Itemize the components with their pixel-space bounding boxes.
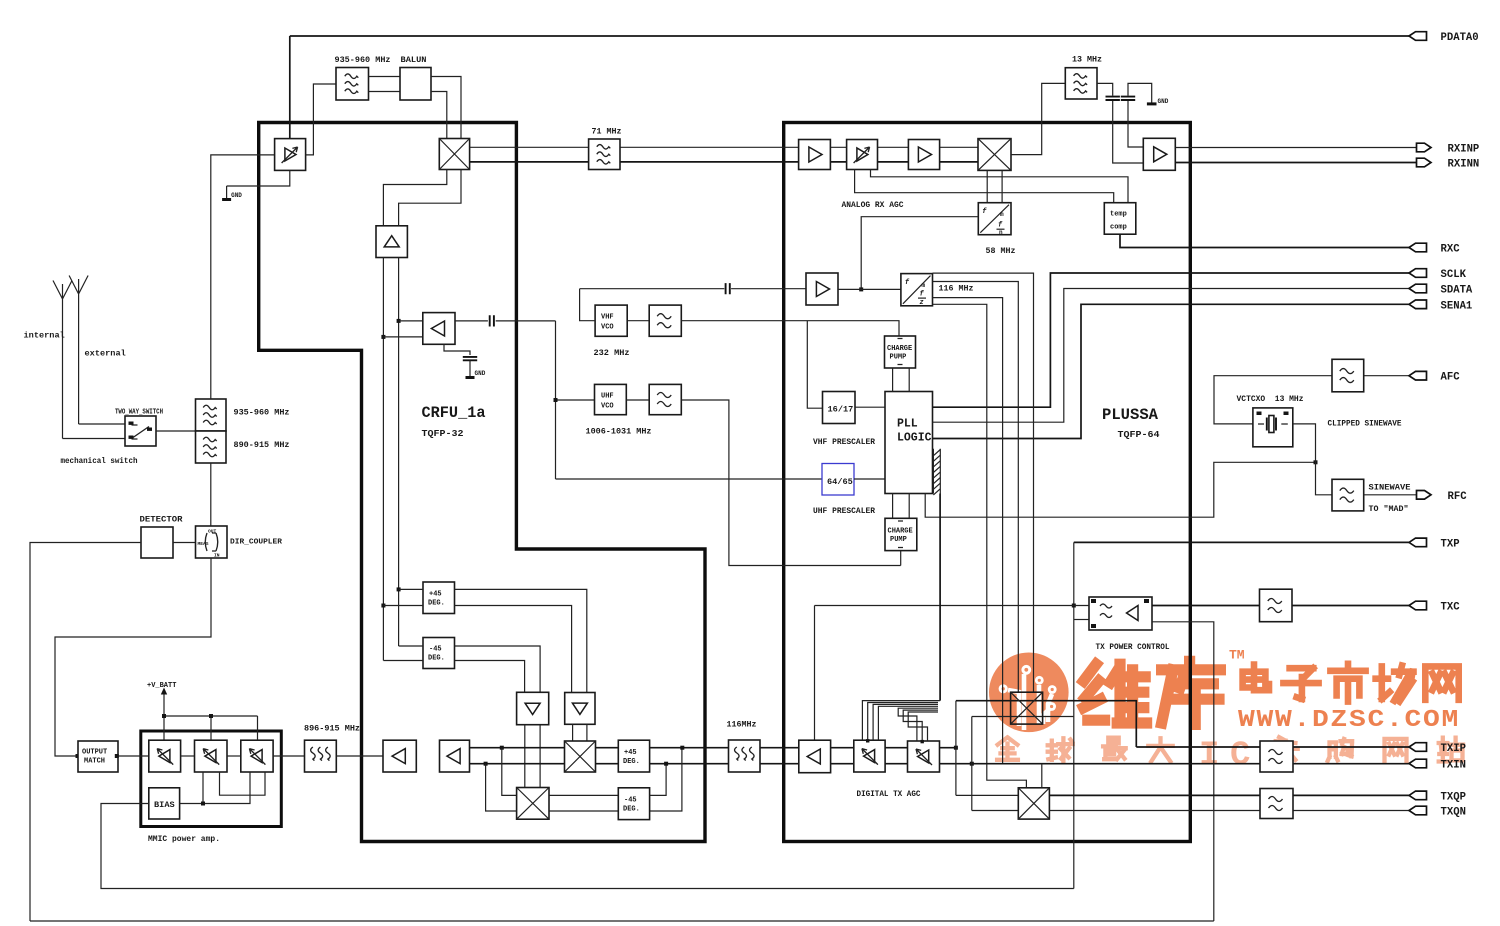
wire 64/65 to pll logic: [854, 478, 885, 480]
wire TXC net: [1152, 605, 1409, 607]
svg-text:-45: -45: [624, 797, 637, 805]
wire tx power control feedback vertical: [1073, 542, 1075, 888]
wire divider A to i mixer: [525, 725, 540, 788]
svg-text:VCO: VCO: [601, 324, 614, 332]
svg-text:DIR_COUPLER: DIR_COUPLER: [230, 539, 283, 547]
directional coupler DIR_COUPLER: [196, 526, 228, 559]
wire i branch down: [502, 748, 517, 796]
svg-text:+V_BATT: +V_BATT: [147, 682, 176, 690]
crfu q mixer: [517, 788, 549, 820]
node PA input: [115, 754, 119, 758]
svg-text:OUT: OUT: [208, 529, 217, 535]
PA stage Q1: [149, 740, 181, 772]
wire q mixer out lower: [549, 748, 682, 811]
wire uhf loop to prescaler 64/65: [556, 478, 823, 480]
svg-text:OUTPUT: OUTPUT: [82, 749, 107, 757]
output match block: [78, 741, 118, 772]
svg-text:TQFP-32: TQFP-32: [422, 428, 464, 439]
port SDATA: [1409, 284, 1473, 296]
wire 116 divider staircase w3: [933, 298, 1003, 764]
lo buffer triangle: [376, 226, 407, 258]
svg-text:TO "MAD": TO "MAD": [1369, 504, 1409, 514]
capacitor vhf loop: [726, 283, 730, 294]
port TXC: [1409, 601, 1460, 613]
wire rx mixer to lo buffer: [383, 170, 461, 226]
node agc att1: [866, 739, 869, 742]
tx agc attenuator 1: [854, 740, 885, 772]
port SENA1: [1409, 300, 1472, 312]
detector DETECTOR: [141, 527, 173, 558]
wire lo distribution verticals: [383, 258, 398, 661]
svg-text:SDATA: SDATA: [1441, 285, 1473, 297]
wire minus45 outputs to dividers: [455, 646, 541, 692]
svg-text:MATCH: MATCH: [84, 758, 105, 766]
svg-text:TXP: TXP: [1441, 538, 1460, 550]
wire agc fan line 7: [908, 712, 938, 741]
svg-text:896-915 MHz: 896-915 MHz: [304, 724, 360, 734]
filter uhf vco: [649, 384, 681, 414]
wire RXINP out: [1175, 147, 1416, 149]
node vbatt stage1: [162, 714, 166, 718]
node agc att2: [921, 740, 924, 743]
wire bias to stages: [180, 772, 266, 804]
svg-text:DIGITAL TX AGC: DIGITAL TX AGC: [857, 789, 921, 799]
wire output match to PA stage 1: [118, 755, 149, 757]
filter 71 MHz: [589, 139, 620, 170]
wire tx agc input: [815, 606, 1090, 741]
svg-text:TXIP: TXIP: [1441, 743, 1466, 755]
wire uhf vco to filter: [626, 399, 649, 401]
svg-text:CHARGE: CHARGE: [888, 528, 913, 536]
filter AFC: [1332, 359, 1364, 392]
charge pump 2: [885, 518, 917, 550]
wire 116 divider staircase w2: [933, 282, 1019, 693]
svg-text:GND: GND: [231, 192, 242, 199]
temp comp block: [1104, 203, 1136, 235]
wire attenuator to 935-960 filter: [306, 84, 336, 155]
svg-text:SENA1: SENA1: [1441, 300, 1473, 312]
port TXQP: [1409, 791, 1466, 803]
port TXIN: [1409, 759, 1466, 771]
wire minus45b up to lower line: [650, 764, 667, 796]
power +V_BATT: [147, 682, 176, 740]
svg-text:TX POWER CONTROL: TX POWER CONTROL: [1096, 642, 1170, 652]
node minus45 in: [381, 604, 385, 608]
capacitor 13MHz b: [1121, 97, 1135, 100]
wire 58MHz loop to rx lo amp: [861, 217, 978, 290]
svg-text:DEG.: DEG.: [428, 600, 445, 608]
node bias stage2: [201, 802, 205, 806]
svg-text:IN: IN: [214, 553, 220, 559]
divide by 2 block A: [517, 692, 549, 724]
watermark characters dian-zi-shi-chang-wang: [1243, 664, 1459, 702]
wire vbatt rail: [164, 716, 258, 740]
wire SCLK net: [933, 273, 1410, 407]
wire tx chain lower: [470, 763, 1417, 765]
port AFC: [1409, 371, 1460, 383]
phase shifter +45 deg b: [618, 740, 649, 772]
filter 935-960 MHz (antenna rx): [196, 399, 227, 431]
vco buffer amp: [423, 313, 455, 345]
wire i upper feed: [956, 701, 1417, 747]
phase shifter +45 deg a: [423, 582, 455, 614]
pll logic block: [885, 392, 933, 494]
module outline MMIC power amp: [141, 731, 281, 827]
svg-text:z: z: [920, 299, 924, 307]
antenna internal: [53, 281, 72, 439]
wire tx chain upper: [470, 747, 956, 749]
svg-text:GND: GND: [1158, 98, 1169, 105]
port TXIP: [1409, 743, 1466, 755]
bus hatch pll logic: [933, 449, 940, 495]
wire tx power control lower stub: [1074, 619, 1089, 621]
svg-text:SINEWAVE: SINEWAVE: [1369, 483, 1411, 493]
svg-text:TM: TM: [1229, 648, 1245, 663]
svg-text:116 MHz: 116 MHz: [939, 284, 974, 294]
svg-text:13 MHz: 13 MHz: [1072, 55, 1102, 65]
node tx power control input: [1072, 604, 1076, 608]
port PDATA0: [1409, 32, 1479, 44]
svg-text:1006-1031 MHz: 1006-1031 MHz: [586, 427, 652, 437]
wire uhf loop feedback: [556, 321, 595, 479]
two-way switch TWO_WAY_SWITCH: [125, 416, 156, 446]
capacitor to gnd: [463, 357, 477, 360]
svg-text:RXINP: RXINP: [1448, 144, 1480, 156]
prescaler 16/17: [823, 392, 856, 424]
node tx i split: [500, 746, 504, 750]
svg-text:16/17: 16/17: [828, 405, 854, 415]
svg-text:m: m: [1000, 211, 1004, 218]
svg-text:PLUSSA: PLUSSA: [1102, 406, 1158, 424]
wire SDATA net: [933, 289, 1410, 423]
watermark slogan quan-qiu-zui-da-IC-cai-gou-wang-zhan: [997, 737, 1463, 775]
wire agc fan line 4: [878, 706, 938, 740]
wire 16/17 to pll logic: [855, 406, 885, 408]
svg-text:71 MHz: 71 MHz: [592, 127, 622, 137]
wire vctcxo to rfc filter: [1293, 424, 1332, 495]
svg-text:internal: internal: [24, 331, 65, 341]
svg-text:CHARGE: CHARGE: [887, 345, 912, 353]
svg-text:TXQN: TXQN: [1441, 807, 1466, 819]
wire PDATA0 net: [290, 36, 1409, 139]
svg-text:external: external: [85, 349, 126, 359]
svg-text:BALUN: BALUN: [401, 55, 427, 65]
node sum upper: [680, 746, 684, 750]
vco block VHF VCO: [595, 305, 627, 336]
watermark logo disc: [989, 653, 1069, 733]
prescaler 64/65: [822, 464, 854, 496]
svg-text:MMIC power amp.: MMIC power amp.: [148, 834, 220, 844]
node uhf loop tap: [554, 398, 558, 402]
svg-text:BIAS: BIAS: [154, 800, 175, 810]
svg-text:I: I: [1199, 737, 1219, 775]
capacitor uhf loop: [490, 315, 494, 326]
bias block BIAS: [149, 788, 180, 819]
wire coupler down to output match: [55, 558, 211, 756]
port RFC: [1417, 491, 1468, 503]
crystal oscillator VCTCXO: [1253, 408, 1293, 447]
svg-text:MEAS: MEAS: [198, 541, 209, 547]
tx if amp 2: [440, 740, 470, 772]
port SCLK: [1409, 269, 1467, 281]
svg-text:TXIN: TXIN: [1441, 760, 1466, 772]
wire rx lo amp to 116 divider: [838, 288, 901, 290]
node rx lo junction: [859, 287, 863, 291]
wire TXP net: [1074, 541, 1409, 543]
rx front attenuator: [275, 139, 306, 171]
wire agc fan line 6: [903, 710, 938, 741]
svg-text:890-915 MHz: 890-915 MHz: [234, 440, 290, 450]
capacitor 13MHz a: [1106, 97, 1120, 100]
svg-text:DEG.: DEG.: [623, 806, 640, 814]
wire rx agc to temp comp b: [855, 170, 1114, 203]
wire divider B to q mixer: [573, 724, 587, 741]
wire rx filter up to attenuator: [211, 155, 275, 399]
port RXINN: [1417, 158, 1480, 170]
wire filter to balun: [369, 77, 401, 92]
plussa q mixer: [1018, 788, 1049, 819]
wire vhf loop to plussa amp: [580, 288, 806, 290]
svg-text:C: C: [1230, 737, 1250, 775]
wire PA stage1 to stage2: [181, 755, 195, 757]
svg-text:GND: GND: [475, 370, 486, 377]
tx if amp 1: [383, 740, 416, 772]
wire cap2 branch: [1128, 83, 1152, 147]
wire lo taps to vco amp: [383, 321, 422, 337]
svg-text:DEG.: DEG.: [428, 655, 445, 663]
wire lo to phase shifters: [383, 589, 423, 660]
node plus45 in: [397, 587, 401, 591]
wire detector feedback loop left: [30, 543, 141, 922]
wire RFC out: [1364, 494, 1417, 496]
wire tx filter down to coupler: [210, 463, 212, 526]
wire charge pump1 to pll: [893, 368, 910, 392]
crfu i mixer: [565, 741, 596, 772]
svg-text:VCO: VCO: [601, 403, 614, 411]
svg-text:mechanical switch: mechanical switch: [61, 456, 138, 466]
rx mixer PLUSSA: [978, 139, 1011, 171]
wire plus45 outputs to dividers: [455, 589, 587, 692]
svg-text:LOGIC: LOGIC: [897, 432, 932, 445]
wire SENA1 net: [933, 304, 1410, 438]
wire rx if out upper: [470, 146, 978, 148]
filter 935-960 MHz rx: [336, 68, 369, 101]
svg-text:RXINN: RXINN: [1448, 159, 1480, 171]
svg-text:PLL: PLL: [897, 418, 918, 431]
wire agc fan line 2: [868, 703, 938, 741]
svg-text:RFC: RFC: [1448, 491, 1468, 503]
svg-text:CRFU_1a: CRFU_1a: [422, 404, 486, 422]
wire rx if out lower: [470, 161, 978, 163]
node lo tap b: [381, 335, 385, 339]
wire vco buffer gnd branch: [444, 344, 470, 355]
wire vhf vco input from divider: [580, 289, 596, 321]
filter TXQP TXQN: [1260, 789, 1293, 819]
svg-text:TXQP: TXQP: [1441, 791, 1466, 803]
tx amp plussa: [799, 740, 831, 773]
charge pump 1: [885, 336, 916, 368]
wire rx mixer to 58MHz divider: [987, 170, 1002, 202]
svg-text:935-960 MHz: 935-960 MHz: [335, 55, 391, 65]
svg-text:SCLK: SCLK: [1441, 269, 1467, 281]
rx amp 2: [908, 140, 939, 170]
wire 896-915 filter to CRFU tx amp: [336, 755, 383, 757]
wire TXQN net: [1049, 810, 1416, 812]
wire AFC net: [1214, 376, 1409, 424]
divide by 2 block B: [565, 693, 595, 725]
port TXQN: [1409, 806, 1466, 818]
svg-text:m: m: [922, 282, 926, 289]
wire PA out to 896-915 filter: [273, 755, 305, 757]
rx amp 1: [799, 140, 831, 170]
svg-text:WWW.DZSC.COM: WWW.DZSC.COM: [1238, 707, 1460, 734]
filter 13 MHz: [1065, 68, 1097, 99]
rx output amp: [1143, 138, 1175, 170]
node sum lower: [664, 762, 668, 766]
divider 58 MHz: [978, 203, 1011, 237]
node lo tap a: [397, 319, 401, 323]
wire 13MHz filter to coupling caps: [1097, 83, 1143, 163]
phase shifter -45 deg b: [618, 788, 649, 820]
wire pll to charge pump2: [893, 494, 910, 519]
watermark brand characters wei-ku: [1084, 661, 1221, 724]
svg-text:n: n: [999, 229, 1003, 236]
divider 116 MHz: [901, 274, 933, 308]
wire 13MHz reference to pll: [925, 462, 1315, 517]
port TXP: [1409, 538, 1460, 550]
filter 116MHz tx: [729, 740, 761, 772]
wire agc control bus: [939, 494, 941, 701]
chip outline CRFU_1a TQFP-32: [259, 123, 705, 842]
svg-text:TWO_WAY_SWITCH: TWO_WAY_SWITCH: [115, 409, 163, 417]
filter RFC: [1332, 479, 1364, 511]
plussa i mixer: [1011, 692, 1043, 724]
wire RXINN out: [1175, 162, 1416, 164]
wire RXC from temp comp: [1120, 234, 1409, 247]
wire PA stage2 to stage3: [227, 755, 241, 757]
antenna external: [69, 276, 88, 425]
svg-text:-45: -45: [429, 646, 442, 654]
node vbatt stage2: [209, 714, 213, 718]
wire balun to rx mixer: [431, 77, 461, 139]
svg-text:58 MHz: 58 MHz: [986, 246, 1016, 256]
wire agc fan line 3: [873, 704, 938, 740]
wire tx i to modulators: [956, 701, 1018, 796]
tx power control block: [1089, 597, 1152, 630]
wire tx power control to detector loop: [30, 622, 1214, 921]
rx agc amp: [847, 140, 878, 170]
wire external antenna to switch: [79, 423, 125, 425]
wire internal antenna to switch: [63, 438, 126, 440]
wire agc fan line 5: [898, 708, 938, 741]
wire TXQP net: [1049, 794, 1416, 796]
wire rx mixer to 13MHz filter: [1011, 83, 1065, 154]
node tx q tap: [970, 762, 974, 766]
rx mixer CRFU: [439, 139, 469, 170]
svg-text:RXC: RXC: [1441, 244, 1461, 256]
wire rx agc to temp comp a: [871, 170, 1129, 203]
svg-text:PDATA0: PDATA0: [1441, 32, 1479, 44]
wire 116 divider staircase w4: [933, 304, 1027, 788]
svg-text:+45: +45: [429, 591, 442, 599]
node tx q split: [484, 762, 488, 766]
svg-text:+45: +45: [624, 749, 637, 757]
ground 13MHz: [1147, 102, 1157, 105]
ground vco buffer: [466, 360, 486, 377]
filter 896-915 MHz tx: [305, 740, 337, 772]
wire vco buffer to uhf loop: [455, 320, 556, 322]
PA stage Q2: [195, 740, 228, 772]
rx lo amp: [806, 273, 838, 305]
wire agc fan line 1: [862, 701, 940, 741]
node vctcxo output junction: [1314, 460, 1318, 464]
svg-text:CLIPPED SINEWAVE: CLIPPED SINEWAVE: [1328, 419, 1402, 429]
filter TXIP TXIN: [1260, 741, 1293, 772]
port RXC: [1409, 243, 1460, 255]
svg-text:VHF: VHF: [601, 314, 614, 322]
port RXINP: [1417, 143, 1480, 155]
node output match left: [76, 754, 80, 758]
svg-text:AFC: AFC: [1441, 372, 1461, 384]
svg-text:ANALOG RX AGC: ANALOG RX AGC: [842, 200, 904, 210]
svg-text:232 MHz: 232 MHz: [594, 348, 630, 358]
wire attenuator gnd stub: [227, 170, 290, 186]
filter TXC: [1260, 589, 1293, 622]
wire vhf vco to filter: [627, 320, 649, 322]
balun BALUN: [400, 68, 431, 101]
svg-text:64/65: 64/65: [827, 477, 853, 487]
svg-text:UHF: UHF: [601, 393, 614, 401]
ground rx attenuator: [222, 186, 242, 200]
svg-text:UHF PRESCALER: UHF PRESCALER: [813, 506, 876, 516]
phase shifter -45 deg a: [423, 638, 455, 669]
svg-text:TQFP-64: TQFP-64: [1118, 429, 1161, 440]
node tx i tap: [954, 746, 958, 750]
wire uhf filter to charge pump 2: [681, 400, 900, 566]
wire vhf filter to prescaler and charge pump: [681, 321, 899, 409]
svg-text:116MHz: 116MHz: [727, 720, 757, 730]
svg-text:PUMP: PUMP: [890, 354, 907, 362]
svg-text:DEG.: DEG.: [623, 758, 640, 766]
svg-text:VCTCXO 13 MHz: VCTCXO 13 MHz: [1237, 394, 1304, 404]
chip outline PLUSSA TQFP-64: [784, 123, 1191, 842]
wire 116 divider staircase w1: [933, 273, 1034, 692]
wire q branch down: [486, 764, 517, 811]
wire bias feedback from tx power control: [101, 804, 1074, 889]
svg-text:temp: temp: [1110, 211, 1127, 219]
vco block UHF VCO: [595, 384, 627, 414]
wire detector to coupler: [173, 542, 196, 544]
svg-text:DETECTOR: DETECTOR: [140, 515, 184, 525]
svg-text:comp: comp: [1110, 224, 1127, 232]
svg-text:935-960 MHz: 935-960 MHz: [234, 408, 290, 418]
tx agc attenuator 2: [908, 741, 940, 772]
svg-text:VHF PRESCALER: VHF PRESCALER: [813, 437, 876, 447]
filter 890-915 MHz (antenna tx): [196, 431, 227, 463]
filter vhf vco: [649, 305, 681, 336]
wire q mixer out upper: [549, 794, 618, 796]
svg-text:PUMP: PUMP: [890, 536, 907, 544]
wire tx q to modulators: [972, 717, 1074, 811]
PA stage Q3: [241, 740, 273, 772]
wire switch to antenna filters: [156, 430, 196, 432]
wire q mixer top feed: [1041, 764, 1043, 788]
svg-text:TXC: TXC: [1441, 602, 1461, 614]
